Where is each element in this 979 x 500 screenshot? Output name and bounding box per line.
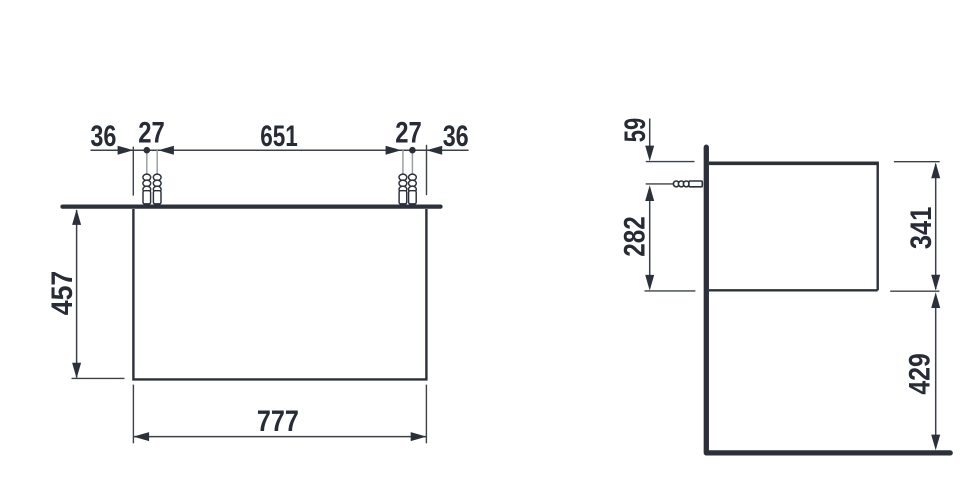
dowel body L1 bbox=[143, 174, 151, 204]
extension line cabinet top (59) bbox=[646, 161, 695, 163]
cabinet side bottom edge bbox=[709, 289, 878, 291]
svg-text:59: 59 bbox=[619, 118, 652, 143]
svg-text:429: 429 bbox=[904, 353, 937, 395]
arrow 36-left pointing right bbox=[118, 146, 134, 155]
dowel body R1 bbox=[399, 174, 407, 204]
cabinet side right edge bbox=[877, 163, 879, 290]
svg-text:651: 651 bbox=[260, 120, 298, 153]
extension line cabinet right edge bbox=[426, 145, 428, 195]
top dimension line bbox=[91, 149, 469, 151]
extension line cabinet top right (341) bbox=[894, 161, 940, 163]
arrow 457 bottom pointing down bbox=[72, 363, 81, 379]
extension line cabinet bottom right bbox=[890, 290, 939, 292]
cabinet front rectangle bbox=[133, 209, 426, 379]
777 extension line right bbox=[425, 385, 427, 444]
arrow 282 bottom pointing down bbox=[645, 275, 654, 291]
arrow 282 top pointing up bbox=[645, 185, 654, 201]
svg-text:36: 36 bbox=[90, 120, 116, 153]
svg-text:36: 36 bbox=[443, 120, 469, 153]
dowel pin L2 bbox=[156, 150, 158, 192]
screw dowel ribs bbox=[673, 181, 702, 187]
429 dimension line bbox=[935, 308, 937, 437]
arrow 429 bottom pointing down bbox=[931, 435, 940, 451]
arrow 777 left pointing left bbox=[133, 432, 149, 441]
dot dowel L1 bbox=[144, 147, 151, 154]
arrow 651-right pointing right bbox=[386, 146, 402, 155]
svg-text:341: 341 bbox=[905, 207, 938, 250]
dowel pin L1 bbox=[146, 154, 148, 193]
dot dowel R2 bbox=[409, 147, 416, 154]
arrow 457 top pointing up bbox=[72, 209, 81, 225]
arrow 36-right pointing left bbox=[427, 146, 443, 155]
dowel pin R2 bbox=[411, 154, 413, 193]
arrow 59 pointing down bbox=[645, 146, 654, 162]
svg-text:777: 777 bbox=[257, 405, 299, 438]
777 dimension line bbox=[133, 436, 426, 438]
svg-text:282: 282 bbox=[619, 216, 652, 257]
457 bottom extension tick bbox=[72, 377, 125, 379]
dowel body L2 bbox=[153, 174, 161, 204]
arrow 341 top pointing up bbox=[931, 163, 940, 179]
wall and floor bbox=[706, 147, 950, 453]
washtop plate bbox=[63, 204, 441, 208]
svg-text:27: 27 bbox=[395, 116, 422, 149]
svg-text:457: 457 bbox=[46, 271, 79, 316]
extension line cabinet left edge bbox=[132, 147, 134, 196]
arrow 777 right pointing right bbox=[411, 432, 427, 441]
777 extension line left bbox=[132, 385, 134, 444]
screw axis / extension line bbox=[646, 183, 697, 185]
cabinet side top edge bbox=[709, 162, 879, 166]
282 dimension line bbox=[649, 200, 651, 276]
341 dimension line bbox=[935, 164, 937, 289]
dowel body R2 bbox=[409, 174, 417, 204]
extension line cabinet bottom left (282) bbox=[645, 290, 696, 292]
59 dimension line upper tail bbox=[649, 119, 651, 147]
457 dimension line bbox=[76, 210, 78, 378]
arrow 429 top pointing up bbox=[931, 292, 940, 308]
dowel pin R1 bbox=[402, 150, 404, 192]
arrow 341 bottom pointing down bbox=[931, 275, 940, 291]
svg-text:27: 27 bbox=[138, 116, 165, 149]
arrow 651-left pointing left bbox=[158, 146, 174, 155]
